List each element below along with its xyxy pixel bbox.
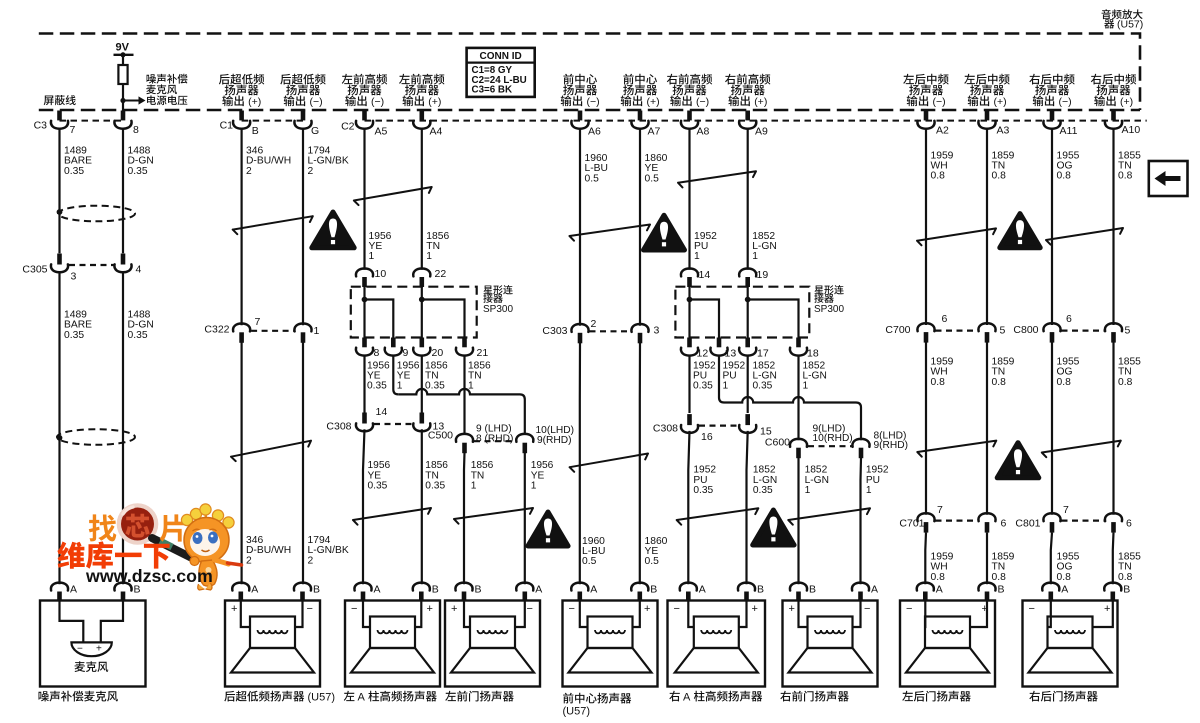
- connector C308 left: [362, 413, 367, 424]
- SP300 left internal wire pin10 to pin8: [363, 287, 365, 338]
- wire pin17 to C308 right pin15: [747, 355, 749, 413]
- wire 1856 TN 1 to left front door speaker: [463, 453, 466, 585]
- svg-text:−: −: [569, 603, 575, 615]
- svg-text:0.5: 0.5: [582, 556, 597, 567]
- left front door speaker box: [445, 601, 540, 687]
- SP300 right exit pin 12: [687, 338, 692, 348]
- node SP300 left splice dot A: [362, 297, 368, 303]
- connector C305: [57, 254, 62, 265]
- svg-text:1: 1: [694, 251, 700, 262]
- star connector SP300 right dashed box: [675, 287, 809, 338]
- svg-text:D-BU/WH: D-BU/WH: [246, 156, 291, 167]
- wire 1794 L-GN/BK upper segment: [302, 129, 304, 326]
- audio amplifier U57 dashed enclosure: [39, 34, 1140, 111]
- connector C801: [1043, 513, 1060, 521]
- svg-text:A7: A7: [648, 126, 661, 138]
- pin A left A-pillar: [354, 583, 371, 591]
- SP300 right entry pin 14: [681, 269, 698, 277]
- wire 1855 TN mid segment: [1112, 343, 1114, 515]
- svg-text:7: 7: [937, 504, 943, 516]
- svg-text:B: B: [757, 584, 764, 596]
- svg-text:(−): (−): [371, 96, 384, 108]
- header label 前中心 扬声器 输出 (−): [563, 74, 573, 85]
- wire pin18 to C600 left pin: [797, 355, 799, 440]
- svg-text:A4: A4: [430, 126, 443, 138]
- svg-text:9V: 9V: [116, 42, 130, 54]
- wire 346 D-BU/WH upper segment: [241, 129, 243, 326]
- svg-text:C701: C701: [899, 518, 924, 530]
- wire 1955 OG upper segment: [1051, 129, 1053, 325]
- svg-text:0.35: 0.35: [753, 485, 773, 496]
- twisted-pair arrow 1955/1855 lower: [1042, 441, 1121, 458]
- svg-text:B: B: [1123, 584, 1130, 596]
- svg-text:A9: A9: [755, 126, 768, 138]
- svg-text:22: 22: [435, 268, 447, 280]
- wire 1859 TN upper segment: [986, 129, 988, 325]
- svg-text:14: 14: [699, 269, 711, 281]
- SP300 right entry pin 19: [739, 269, 756, 277]
- svg-text:−: −: [77, 644, 83, 655]
- svg-text:21: 21: [477, 347, 489, 359]
- svg-text:13: 13: [725, 348, 737, 360]
- microphone element symbol: [71, 642, 111, 656]
- svg-text:A: A: [251, 584, 258, 596]
- SP300 right internal wire pin14 to pin12: [688, 287, 690, 338]
- label 麦克风: [75, 661, 86, 672]
- caption 后超低频扬声器 (U57): [224, 691, 235, 702]
- svg-text:(−): (−): [1059, 96, 1072, 108]
- microphone box 噪声补偿麦克风: [40, 601, 146, 687]
- SP300 left exit pin 9: [391, 338, 396, 348]
- header label 后超低频 扬声器 输出 (+): [219, 74, 230, 85]
- header label 后超低频 扬声器 输出 (−): [280, 74, 291, 85]
- svg-text:2: 2: [246, 555, 252, 566]
- svg-text:0.35: 0.35: [693, 381, 713, 392]
- svg-text:7: 7: [70, 124, 76, 136]
- svg-text:C303: C303: [542, 325, 567, 337]
- wire 1794 L-GN/BK lower segment: [302, 342, 304, 584]
- svg-text:C500: C500: [428, 430, 453, 442]
- svg-text:0.35: 0.35: [693, 485, 713, 496]
- svg-text:C801: C801: [1015, 518, 1040, 530]
- wire pin21 to C500 left pin: [463, 355, 465, 435]
- svg-text:8: 8: [374, 347, 380, 359]
- watermark 维库一下: [57, 541, 169, 568]
- pin A right rear door: [1042, 583, 1059, 591]
- svg-text:0.5: 0.5: [585, 173, 600, 184]
- svg-text:0.8: 0.8: [931, 377, 946, 388]
- watermark dzsc logo: [117, 503, 196, 560]
- svg-text:C1: C1: [220, 120, 234, 132]
- svg-text:0.35: 0.35: [368, 481, 388, 492]
- caption 右A柱高频扬声器: [669, 691, 680, 702]
- svg-text:0.5: 0.5: [645, 556, 660, 567]
- header label 左后中频 扬声器 输出 (−): [903, 74, 914, 84]
- svg-text:A6: A6: [588, 126, 601, 138]
- svg-text:A: A: [699, 584, 706, 596]
- wire 9V to resistor: [122, 55, 124, 65]
- header label 右后中频 扬声器 输出 (−): [1029, 74, 1040, 85]
- SP300 left branch to pin 21: [422, 300, 465, 338]
- SP300 right branch to pin 13: [690, 300, 720, 338]
- SP300 left exit pin 8: [362, 338, 367, 348]
- wire 1856 TN into SP300 pin 22: [421, 129, 423, 270]
- connector C303: [571, 324, 588, 332]
- svg-text:B: B: [252, 125, 259, 137]
- SP300 right exit pin 17: [745, 338, 750, 348]
- arrow mic supply voltage callout: [123, 100, 139, 102]
- svg-text:A: A: [535, 584, 542, 596]
- svg-text:(−): (−): [310, 96, 323, 108]
- wire pin13 elbow to right bus: [719, 355, 724, 402]
- twisted-pair arrow 1959/1859 lower: [917, 441, 996, 457]
- svg-text:(+): (+): [1120, 96, 1133, 108]
- svg-text:+: +: [96, 644, 102, 655]
- wire 1955 OG mid segment: [1051, 343, 1053, 515]
- svg-text:1: 1: [803, 381, 809, 392]
- svg-text:19: 19: [757, 269, 769, 281]
- svg-text:+: +: [427, 603, 433, 615]
- svg-text:0.35: 0.35: [128, 330, 148, 341]
- twisted-pair arrow 1856/1956 door lower: [454, 508, 533, 524]
- svg-text:16: 16: [701, 431, 713, 443]
- svg-text:7: 7: [1063, 504, 1069, 516]
- caption 前中心扬声器 (U57): [563, 693, 573, 704]
- svg-text:(+): (+): [248, 96, 261, 108]
- svg-text:(+): (+): [994, 96, 1007, 108]
- wire 1488 D-GN lower segment: [122, 272, 124, 584]
- wire 1860 YE upper segment: [639, 129, 641, 326]
- twisted-pair arrow 346/1794 lower: [231, 441, 311, 461]
- svg-text:0.8: 0.8: [992, 572, 1007, 583]
- mic pin A: [51, 583, 68, 591]
- svg-text:7: 7: [255, 316, 261, 328]
- svg-text:B: B: [313, 584, 320, 596]
- SP300 right exit pin 18: [796, 338, 801, 348]
- connector C701: [917, 513, 934, 521]
- svg-text:−: −: [864, 603, 870, 615]
- svg-text:B: B: [998, 584, 1005, 596]
- svg-text:−: −: [674, 603, 680, 615]
- warning triangle lower left: [528, 512, 568, 546]
- header label 右前高频 扬声器 输出 (−): [667, 74, 678, 85]
- svg-text:A2: A2: [936, 125, 949, 137]
- connector C700: [917, 323, 934, 331]
- svg-text:−: −: [307, 603, 313, 615]
- svg-text:0.8: 0.8: [1057, 572, 1072, 583]
- wire 1852 L-GN into SP300 pin 19: [747, 129, 749, 270]
- svg-text:A: A: [1061, 584, 1068, 596]
- pin A left rear door: [917, 583, 934, 591]
- svg-text:1: 1: [805, 485, 811, 496]
- svg-text:B: B: [809, 584, 816, 596]
- svg-text:(+): (+): [754, 96, 767, 108]
- wire 1955 OG to right rear door speaker: [1051, 533, 1052, 585]
- wire 1952 PU 1 to right front door speaker: [859, 458, 862, 585]
- wire pin9 elbow to bus: [393, 355, 398, 394]
- svg-text:2: 2: [308, 166, 314, 177]
- svg-text:−: −: [1029, 603, 1035, 615]
- watermark 找芯片 characters: [89, 514, 117, 541]
- pin B left rear door: [978, 583, 995, 591]
- wire 1852 L-GN 1 to right front door speaker: [797, 458, 799, 585]
- warning triangle near 1952/1852: [644, 215, 685, 250]
- svg-text:C2: C2: [341, 121, 355, 133]
- svg-text:0.8: 0.8: [931, 572, 946, 583]
- connector pin A11 terminal: [1050, 111, 1055, 121]
- warning triangle near 1959/1855 pairs: [1000, 214, 1040, 248]
- svg-text:9: 9: [403, 347, 409, 359]
- svg-text:17: 17: [757, 348, 769, 360]
- svg-text:0.8: 0.8: [1118, 572, 1133, 583]
- node mic supply tap dot: [120, 98, 125, 103]
- SP300 left entry pin 10: [356, 269, 373, 277]
- twisted-pair arrow wires 1956/1856: [354, 187, 432, 205]
- wire 1959 WH upper segment: [925, 129, 927, 325]
- svg-text:10: 10: [375, 268, 387, 280]
- SP300 left branch to pin 9: [365, 300, 394, 338]
- pin B right A-pillar: [738, 583, 755, 591]
- svg-text:0.8: 0.8: [1057, 171, 1072, 182]
- connector pin A3 terminal: [985, 111, 990, 121]
- watermark mascot: [181, 504, 241, 590]
- svg-text:6: 6: [1066, 313, 1072, 325]
- svg-text:A: A: [70, 584, 77, 596]
- pin A front center: [571, 583, 588, 591]
- svg-text:C3: C3: [34, 120, 48, 132]
- connector pin B terminal: [239, 111, 244, 121]
- svg-text:SP300: SP300: [814, 304, 844, 315]
- svg-text:4: 4: [136, 264, 142, 276]
- svg-text:L-GN/BK: L-GN/BK: [308, 156, 349, 167]
- svg-text:3: 3: [654, 325, 660, 337]
- connector C308 right: [687, 414, 692, 425]
- svg-text:C3=6 BK: C3=6 BK: [472, 84, 513, 95]
- pin A left front door: [516, 583, 533, 591]
- wire 1855 TN upper segment: [1112, 129, 1114, 325]
- node shield tap dot lower: [57, 435, 63, 441]
- svg-text:14: 14: [376, 406, 388, 418]
- wire pin20 to C308 pin13: [421, 355, 423, 413]
- header label 左前高频 扬声器 输出 (+): [399, 74, 410, 84]
- svg-text:C600: C600: [765, 437, 790, 449]
- microphone wires: [60, 601, 84, 643]
- connector pin A9 terminal: [745, 111, 750, 121]
- node SP300 right splice dot B: [745, 297, 751, 303]
- wire resistor to connector C3-8: [122, 84, 124, 111]
- wire 1959 WH to left rear door speaker: [924, 533, 927, 585]
- wire 1856 TN 0.35 to left A-pillar speaker: [421, 429, 423, 584]
- wire 1859 TN mid segment: [986, 343, 988, 515]
- wire 346 D-BU/WH lower segment: [241, 342, 243, 584]
- front center speaker box: [563, 601, 658, 687]
- svg-text:B: B: [650, 584, 657, 596]
- svg-text:9(RHD): 9(RHD): [537, 435, 572, 446]
- svg-text:1: 1: [752, 251, 758, 262]
- wire 1859 TN to left rear door speaker: [986, 533, 988, 585]
- svg-text:(U57): (U57): [563, 706, 591, 718]
- twisted-pair arrow wires 1955/1855: [1046, 228, 1123, 245]
- connector pin G terminal: [301, 111, 306, 121]
- connector C800: [1043, 323, 1060, 331]
- label 星形连接器 SP300 right: [814, 285, 823, 294]
- svg-text:+: +: [1104, 603, 1110, 615]
- svg-text:2: 2: [246, 166, 252, 177]
- label 星形连接器 SP300 left: [483, 285, 492, 294]
- pin B front center: [631, 583, 648, 591]
- svg-text:+: +: [231, 603, 237, 615]
- SP300 right exit pin 13: [717, 338, 722, 348]
- svg-text:A: A: [871, 584, 878, 596]
- connector pin A6 terminal: [578, 111, 583, 121]
- svg-text:8: 8: [133, 124, 139, 136]
- svg-text:+: +: [752, 603, 758, 615]
- svg-text:0.8: 0.8: [992, 171, 1007, 182]
- warning triangle near 1956/1856: [312, 212, 354, 248]
- caption 右后门扬声器: [1029, 691, 1040, 702]
- svg-text:(+): (+): [428, 96, 441, 108]
- wire 1960 L-BU to center speaker: [579, 343, 581, 585]
- svg-text:(−): (−): [933, 96, 946, 108]
- svg-text:0.35: 0.35: [425, 381, 445, 392]
- bus wire 1956 YE 1 with hops to C500: [398, 389, 525, 435]
- svg-text:6: 6: [1001, 518, 1007, 530]
- svg-text:C308: C308: [653, 423, 678, 435]
- pin B left front door: [455, 583, 472, 591]
- svg-text:D-BU/WH: D-BU/WH: [246, 545, 291, 556]
- svg-text:18: 18: [807, 348, 819, 360]
- resistor noise-mic feed: [118, 65, 127, 84]
- svg-text:A: A: [590, 584, 597, 596]
- left A-pillar tweeter box: [345, 601, 440, 687]
- header label 右后中频 扬声器 输出 (+): [1091, 74, 1102, 85]
- connector pin 8 terminal: [121, 111, 126, 121]
- pin A rear subwoofer: [232, 583, 249, 591]
- svg-text:A10: A10: [1122, 124, 1141, 136]
- twisted-pair arrow 1952/1852 lower: [677, 508, 759, 524]
- connector C3 fine dashed body: [60, 120, 124, 122]
- svg-text:A11: A11: [1060, 125, 1078, 137]
- wire pin12 to C308 right pin16: [688, 355, 690, 413]
- node SP300 left splice dot B: [419, 297, 425, 303]
- wire 1860 YE to center speaker: [639, 343, 641, 585]
- svg-text:0.35: 0.35: [367, 381, 387, 392]
- pin B right front door: [790, 583, 807, 591]
- node shield tap dot upper: [57, 209, 63, 215]
- connector pin A4 terminal: [419, 111, 424, 121]
- wire 1855 TN to right rear door speaker: [1112, 533, 1115, 585]
- svg-text:1: 1: [369, 251, 375, 262]
- caption 左A柱高频扬声器: [344, 691, 355, 701]
- svg-text:0.35: 0.35: [64, 330, 84, 341]
- label 屏蔽线 (shield wire): [44, 96, 54, 106]
- connector pin A8 terminal: [687, 111, 692, 121]
- svg-text:C305: C305: [22, 264, 47, 276]
- label 音频放大器 (U57): [1102, 9, 1111, 19]
- connector pin A2 terminal: [924, 111, 929, 121]
- svg-text:6: 6: [942, 313, 948, 325]
- caption 噪声补偿麦克风: [39, 691, 49, 701]
- svg-text:1: 1: [397, 381, 403, 392]
- SP300 left exit pin 21: [462, 338, 467, 348]
- right A-pillar tweeter box: [668, 601, 766, 687]
- connector C600: [790, 439, 807, 447]
- svg-text:−: −: [906, 603, 912, 615]
- svg-text:2: 2: [308, 555, 314, 566]
- svg-text:G: G: [311, 125, 319, 137]
- svg-text:−: −: [527, 603, 533, 615]
- svg-text:(U57): (U57): [308, 692, 336, 704]
- svg-text:1: 1: [531, 481, 537, 492]
- wire 1489 BARE lower segment: [58, 272, 60, 584]
- svg-text:A: A: [683, 692, 691, 704]
- right rear door speaker box: [1023, 601, 1118, 687]
- twisted-pair arrow 1956/1856 lower: [353, 508, 431, 525]
- twisted-pair arrow wires 1959/1859: [917, 228, 996, 245]
- warning triangle lower far right: [997, 443, 1039, 478]
- svg-text:9(RHD): 9(RHD): [874, 440, 909, 451]
- twisted-pair arrow wires 1960/1860: [570, 225, 651, 241]
- pin A right front door: [852, 583, 869, 591]
- svg-text:B: B: [432, 584, 439, 596]
- svg-text:0.8: 0.8: [992, 377, 1007, 388]
- warning triangle lower right of C308: [753, 510, 794, 545]
- caption 右前门扬声器: [780, 691, 791, 702]
- svg-text:3: 3: [71, 271, 77, 283]
- SP300 left entry pin 22: [413, 269, 430, 277]
- svg-text:0.35: 0.35: [64, 166, 84, 177]
- shield ellipse upper: [58, 206, 135, 222]
- svg-text:0.8: 0.8: [931, 171, 946, 182]
- svg-text:1: 1: [723, 381, 729, 392]
- SP300 right internal wire pin19 to pin17: [747, 287, 749, 338]
- header label 右前高频 扬声器 输出 (+): [725, 74, 736, 85]
- svg-text:+: +: [644, 603, 650, 615]
- pin B left A-pillar: [413, 583, 430, 591]
- wire 1959 WH mid segment: [925, 343, 927, 515]
- svg-text:6: 6: [1126, 518, 1132, 530]
- connector C1 fine dashed body: [242, 120, 303, 122]
- svg-text:1: 1: [314, 325, 320, 337]
- svg-text:5: 5: [1000, 325, 1006, 337]
- pin B right rear door: [1104, 583, 1121, 591]
- bus wire 1952 PU 1 with hops to C600: [724, 397, 861, 440]
- SP300 left exit pin 20: [419, 338, 424, 348]
- connector pin 7 terminal: [57, 111, 62, 121]
- svg-text:5: 5: [1125, 325, 1131, 337]
- svg-text:A: A: [374, 584, 381, 596]
- svg-text:0.8: 0.8: [1057, 377, 1072, 388]
- svg-text:C308: C308: [326, 421, 351, 433]
- pin B rear subwoofer: [294, 583, 311, 591]
- label 噪声补偿麦克风电源电压: [147, 74, 156, 83]
- mic pin B: [114, 583, 131, 591]
- twisted-pair arrow 1960/1860 lower: [570, 454, 648, 472]
- svg-text:L-GN/BK: L-GN/BK: [308, 545, 349, 556]
- SP300 left internal wire pin22 to pin20: [421, 287, 423, 338]
- svg-text:(−): (−): [696, 96, 709, 108]
- rear subwoofer speaker box: [225, 601, 320, 687]
- svg-text:A5: A5: [375, 126, 388, 138]
- wire 1489 BARE upper segment: [58, 129, 60, 254]
- svg-text:(+): (+): [647, 96, 660, 108]
- connector pin A7 terminal: [638, 111, 643, 121]
- SP300 right branch to pin 18: [748, 300, 799, 338]
- svg-text:10(RHD): 10(RHD): [813, 433, 853, 444]
- svg-text:C800: C800: [1013, 324, 1038, 336]
- svg-text:(−): (−): [587, 96, 600, 108]
- connector C322: [233, 324, 250, 332]
